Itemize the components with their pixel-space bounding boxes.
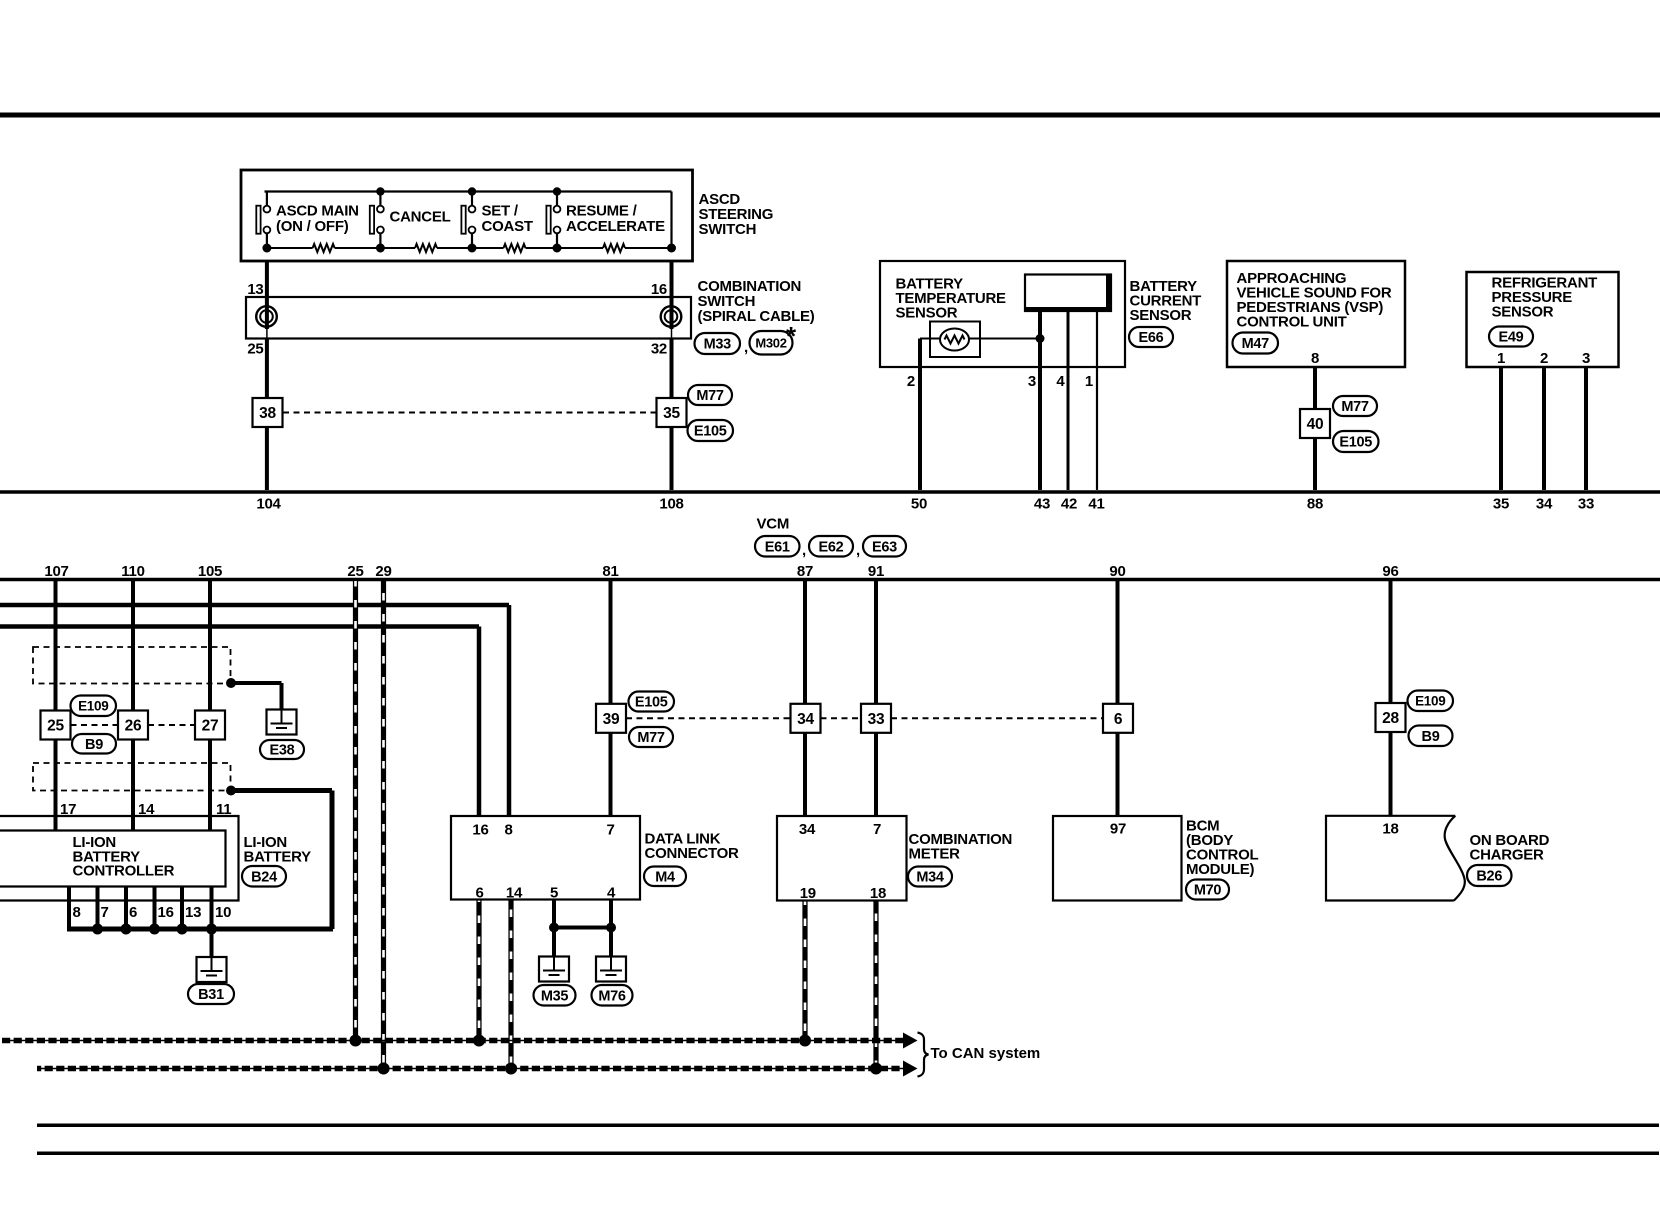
svg-text:34: 34 <box>799 821 816 838</box>
svg-text:8: 8 <box>504 822 512 839</box>
svg-text:4: 4 <box>1056 373 1065 390</box>
svg-text:E109: E109 <box>1415 694 1445 709</box>
svg-text:M47: M47 <box>1242 336 1270 352</box>
svg-text:110: 110 <box>121 563 144 580</box>
svg-text:ASCD MAIN: ASCD MAIN <box>276 203 359 220</box>
svg-text:E105: E105 <box>635 695 668 711</box>
svg-text:2: 2 <box>1540 350 1548 367</box>
svg-text:B9: B9 <box>1422 729 1440 745</box>
svg-text:6: 6 <box>129 904 137 921</box>
svg-text:16: 16 <box>472 822 488 839</box>
svg-text:105: 105 <box>198 563 222 580</box>
svg-text:,: , <box>802 542 806 559</box>
svg-text:6: 6 <box>475 885 483 902</box>
svg-text:E105: E105 <box>1339 435 1372 451</box>
svg-text:To CAN system: To CAN system <box>931 1045 1041 1062</box>
svg-text:7: 7 <box>873 821 881 838</box>
svg-text:CONNECTOR: CONNECTOR <box>645 845 740 862</box>
svg-text:50: 50 <box>911 496 927 513</box>
svg-text:E66: E66 <box>1139 330 1164 346</box>
svg-text:38: 38 <box>259 405 276 422</box>
svg-text:CHARGER: CHARGER <box>1470 847 1545 864</box>
svg-text:VCM: VCM <box>757 516 790 533</box>
svg-text:25: 25 <box>247 341 263 358</box>
svg-text:28: 28 <box>1382 710 1399 727</box>
svg-text:*: * <box>786 321 797 351</box>
svg-text:33: 33 <box>868 711 885 728</box>
svg-text:E49: E49 <box>1499 330 1524 346</box>
svg-text:5: 5 <box>550 885 558 902</box>
svg-text:16: 16 <box>651 281 667 298</box>
svg-text:E105: E105 <box>694 424 727 440</box>
svg-text:1: 1 <box>1085 373 1093 390</box>
svg-text:40: 40 <box>1307 416 1324 433</box>
svg-text:35: 35 <box>663 405 680 422</box>
svg-text:,: , <box>744 339 748 356</box>
svg-text:E38: E38 <box>270 743 295 759</box>
svg-text:97: 97 <box>1110 821 1126 838</box>
svg-text:87: 87 <box>797 563 813 580</box>
svg-text:E109: E109 <box>78 699 108 714</box>
svg-text:B9: B9 <box>85 737 103 753</box>
svg-text:81: 81 <box>602 563 618 580</box>
svg-text:B24: B24 <box>251 869 277 885</box>
svg-text:3: 3 <box>1582 350 1590 367</box>
svg-text:COAST: COAST <box>482 218 533 235</box>
svg-text:18: 18 <box>1382 821 1398 838</box>
svg-text:CONTROLLER: CONTROLLER <box>73 863 175 880</box>
svg-text:CONTROL UNIT: CONTROL UNIT <box>1237 314 1347 331</box>
svg-text:8: 8 <box>1311 350 1319 367</box>
svg-text:41: 41 <box>1088 496 1104 513</box>
svg-text:M302: M302 <box>755 335 786 350</box>
svg-text:MODULE): MODULE) <box>1186 861 1254 878</box>
svg-text:96: 96 <box>1382 563 1398 580</box>
svg-text:26: 26 <box>125 718 142 735</box>
svg-text:ACCELERATE: ACCELERATE <box>566 218 665 235</box>
svg-text:42: 42 <box>1061 496 1077 513</box>
svg-text:104: 104 <box>256 496 281 513</box>
svg-text:6: 6 <box>1114 711 1123 728</box>
svg-text:108: 108 <box>659 496 683 513</box>
svg-text:25: 25 <box>47 718 64 735</box>
svg-text:SENSOR: SENSOR <box>1130 307 1192 324</box>
svg-text:8: 8 <box>73 904 81 921</box>
svg-text:,: , <box>856 542 860 559</box>
svg-text:7: 7 <box>606 822 614 839</box>
svg-text:16: 16 <box>158 904 174 921</box>
svg-text:(ON / OFF): (ON / OFF) <box>276 218 349 235</box>
svg-text:SENSOR: SENSOR <box>896 305 958 322</box>
svg-text:METER: METER <box>909 846 961 863</box>
svg-text:M77: M77 <box>696 388 724 404</box>
svg-text:B31: B31 <box>198 987 224 1003</box>
svg-text:M77: M77 <box>1341 399 1369 415</box>
svg-text:90: 90 <box>1109 563 1125 580</box>
svg-text:14: 14 <box>506 885 523 902</box>
svg-text:E61: E61 <box>765 539 790 555</box>
svg-text:27: 27 <box>202 718 219 735</box>
svg-text:3: 3 <box>1028 373 1036 390</box>
svg-text:107: 107 <box>44 563 68 580</box>
svg-text:RESUME /: RESUME / <box>566 203 638 220</box>
svg-text:SENSOR: SENSOR <box>1492 304 1554 321</box>
svg-text:1: 1 <box>1497 350 1505 367</box>
svg-text:(SPIRAL CABLE): (SPIRAL CABLE) <box>698 308 815 325</box>
svg-text:43: 43 <box>1034 496 1050 513</box>
svg-text:10: 10 <box>215 904 231 921</box>
svg-text:32: 32 <box>651 341 667 358</box>
svg-text:35: 35 <box>1493 496 1509 513</box>
svg-text:18: 18 <box>870 885 886 902</box>
svg-text:E63: E63 <box>872 539 897 555</box>
svg-text:88: 88 <box>1307 496 1323 513</box>
svg-text:M76: M76 <box>598 988 626 1004</box>
svg-text:13: 13 <box>247 281 263 298</box>
svg-text:SWITCH: SWITCH <box>699 221 757 238</box>
svg-text:M35: M35 <box>541 988 569 1004</box>
svg-text:M70: M70 <box>1194 883 1222 899</box>
svg-text:91: 91 <box>868 563 884 580</box>
svg-text:2: 2 <box>907 373 915 390</box>
svg-text:29: 29 <box>375 563 391 580</box>
svg-text:4: 4 <box>607 885 616 902</box>
svg-text:B26: B26 <box>1476 869 1502 885</box>
svg-text:19: 19 <box>800 885 816 902</box>
svg-text:SET /: SET / <box>482 203 519 220</box>
svg-text:CANCEL: CANCEL <box>390 209 451 226</box>
svg-text:34: 34 <box>797 711 814 728</box>
svg-text:34: 34 <box>1536 496 1553 513</box>
svg-text:39: 39 <box>603 711 620 728</box>
svg-text:M33: M33 <box>704 337 732 353</box>
svg-text:33: 33 <box>1578 496 1594 513</box>
svg-text:M77: M77 <box>637 730 665 746</box>
svg-text:M34: M34 <box>916 870 944 886</box>
svg-text:M4: M4 <box>655 869 675 885</box>
svg-text:7: 7 <box>101 904 109 921</box>
svg-text:25: 25 <box>347 563 363 580</box>
svg-text:BATTERY: BATTERY <box>244 848 312 865</box>
svg-text:E62: E62 <box>819 539 844 555</box>
svg-text:13: 13 <box>185 904 201 921</box>
